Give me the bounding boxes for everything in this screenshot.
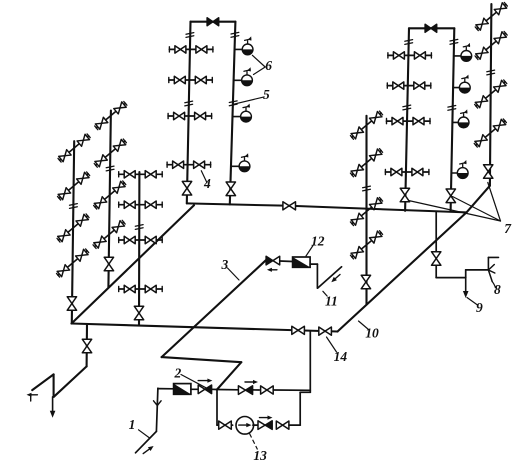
pointer to 11 — [323, 291, 327, 296]
valve riser 3 base — [134, 306, 143, 313]
branch with valves, center riser level 3 — [352, 199, 381, 223]
branch with valves, riser 5 level 4 — [476, 121, 505, 145]
valve riser 5 base — [484, 165, 493, 172]
wire right horizontal — [436, 277, 466, 279]
svg-text:9: 9 — [476, 300, 483, 315]
air collector 1 left — [242, 44, 253, 55]
break riser D top — [450, 39, 458, 41]
valve 14 on front main — [319, 327, 325, 335]
wire pump line right — [289, 424, 300, 426]
riser B left-pair right — [230, 22, 236, 205]
pointer to 8 — [492, 282, 495, 289]
drain side arrow — [32, 394, 38, 396]
valve riser B base — [226, 182, 235, 189]
air collector 3 left — [241, 111, 252, 122]
wire pump line left — [217, 424, 233, 426]
branch with valves, riser 1 level 1 — [60, 136, 89, 160]
riser 3 — [138, 172, 140, 326]
wire riser 5 to corner — [467, 186, 490, 213]
branch with valves, center riser level 2 — [352, 151, 381, 175]
water meter unit 12 — [293, 257, 311, 267]
valve before pump — [219, 421, 225, 429]
pump 13 — [236, 417, 254, 435]
wire unit 12 drop — [316, 264, 318, 288]
flow arrow over bypass — [245, 381, 253, 383]
valve riser A base — [182, 181, 191, 188]
riser 1 far left — [72, 141, 74, 322]
valve on drain drop — [82, 339, 91, 346]
flow arrow left — [272, 269, 277, 271]
branch with valves, riser 2 level 1 — [96, 103, 125, 127]
air collector 4 left — [239, 161, 250, 172]
break center riser — [363, 186, 371, 188]
branch with valves, riser C level 3 — [387, 120, 431, 122]
valve on back main — [283, 202, 289, 210]
wire makeup inlet diagonal 11 — [318, 267, 342, 288]
filter unit 2 — [174, 384, 191, 395]
wire inlet 1 vertical — [156, 388, 158, 431]
svg-text:4: 4 — [203, 176, 211, 191]
valve on right drop — [432, 252, 441, 259]
wire pump suction vertical — [216, 390, 218, 426]
check valve on bypass — [238, 386, 245, 395]
air collector 1 right — [461, 51, 472, 62]
wire drain diagonal — [54, 366, 87, 396]
wire inlet to filter — [158, 388, 174, 390]
wire drop right — [435, 212, 437, 278]
wire stub to air collector 2 right — [453, 87, 459, 89]
valve riser C base — [400, 188, 409, 195]
wire top pipe right pair — [409, 27, 454, 29]
svg-text:3: 3 — [221, 257, 229, 272]
tap 8 riser — [487, 257, 489, 270]
riser 4 center — [365, 116, 367, 304]
wire drop to drain — [86, 324, 89, 366]
branch with valves, riser 5 level 1 — [477, 4, 506, 28]
valve center riser base — [361, 275, 370, 282]
break riser C top — [405, 40, 413, 42]
pointer to 12 — [306, 246, 313, 257]
riser 2 — [108, 111, 111, 288]
wire stub to air collector 1 right — [454, 55, 461, 57]
break riser 5 — [487, 70, 495, 72]
tap 8 handle — [488, 265, 494, 271]
wire drain jog vertical — [53, 374, 55, 396]
air collector 4 right — [457, 168, 468, 179]
branch with valves, riser A level 4 — [167, 164, 211, 166]
wire front main — [72, 324, 338, 332]
wire back main — [187, 203, 290, 205]
air collector 3 right — [458, 117, 469, 128]
svg-text:12: 12 — [311, 233, 325, 248]
pointer to 1 — [139, 430, 150, 438]
tap 8 spout — [488, 256, 498, 258]
wire jog at pump outlet — [300, 391, 310, 393]
branch with valves, riser C level 1 — [388, 54, 432, 56]
pointer to 14 — [327, 337, 337, 352]
break riser 1 — [70, 204, 78, 206]
break riser B top — [231, 32, 239, 34]
branch with valves, riser A level 1 — [169, 48, 213, 50]
wire pump outlet vertical — [299, 392, 301, 425]
break riser D mid — [448, 106, 456, 108]
flow arrow inlet 1 — [143, 449, 149, 453]
break riser 2 — [106, 166, 114, 168]
pointer to 4 — [201, 171, 207, 183]
branch with valves, riser 2 level 3 — [95, 183, 124, 207]
branch with valves, riser 3 level 1 — [119, 173, 163, 175]
pointer to 7 — [488, 183, 501, 222]
pointer to 9 — [467, 298, 478, 306]
branch with valves, riser 5 level 3 — [476, 82, 505, 106]
svg-text:14: 14 — [334, 349, 348, 364]
wire valve to unit 12 — [280, 260, 293, 263]
valve on top pipe right pair — [425, 24, 431, 32]
flow arrow over pump check — [260, 417, 268, 419]
branch with valves, riser 1 level 2 — [59, 174, 88, 198]
break riser B mid — [229, 101, 237, 103]
drain arrow 9 — [465, 278, 467, 291]
branch with valves, riser A level 2 — [169, 79, 213, 81]
riser A left — [187, 22, 191, 204]
node junction P1 — [217, 389, 238, 391]
check valve after filter — [198, 385, 205, 394]
wire supply jog diagonal — [217, 362, 241, 389]
wire stub to air collector 3 right — [452, 121, 458, 123]
flow chevron on inlet — [154, 401, 158, 406]
flow arrow over check valve — [198, 380, 207, 382]
pointer to 5 — [233, 97, 264, 104]
riser D right-pair right — [451, 28, 455, 211]
branch with valves, riser C level 4 — [385, 171, 429, 173]
wire filter to check valve — [191, 388, 198, 390]
valve on top pipe left pair — [207, 18, 213, 26]
pointer to 13 dashed — [250, 434, 258, 450]
pointer to 6 — [252, 55, 265, 67]
wire return diagonal 10 — [338, 212, 467, 331]
wire stub to air collector 2 left — [234, 79, 242, 81]
branch with valves, riser 3 level 2 — [119, 204, 163, 206]
branch with valves, center riser level 1 — [352, 113, 381, 137]
svg-text:6: 6 — [265, 58, 272, 73]
wire drain jog diagonal — [32, 374, 53, 390]
pointer to 10 — [359, 321, 369, 330]
wire stub to air collector 1 left — [235, 48, 243, 50]
branch with valves, riser 5 level 2 — [477, 33, 506, 57]
wire check valve to junction — [212, 388, 217, 390]
wire pump to check valve — [253, 424, 258, 426]
break riser A top — [186, 33, 194, 35]
valve on front main left — [292, 326, 298, 334]
pointer to 3 — [228, 268, 240, 280]
wire stub to air collector 3 left — [233, 116, 241, 118]
break riser C mid — [403, 105, 411, 107]
wire left floor diagonal — [72, 205, 195, 323]
wire unit 12 outlet — [310, 263, 317, 265]
branch with valves, riser 1 level 3 — [59, 216, 88, 240]
wire bypass to riser — [273, 389, 310, 391]
break riser A mid — [185, 101, 193, 103]
branch with valves, riser 2 level 2 — [96, 141, 125, 165]
branch with valves, riser C level 2 — [387, 85, 431, 87]
break riser 3 — [135, 225, 143, 227]
check valve near unit 12 — [266, 256, 273, 265]
air collector 2 left — [242, 75, 253, 86]
wire stub to air collector 4 right — [451, 172, 457, 174]
wire inlet 1 diagonal — [136, 431, 157, 452]
wire riser to front main — [309, 332, 311, 393]
branch with valves, center riser level 4 — [352, 233, 381, 257]
branch with valves, riser 3 level 3 — [119, 239, 163, 241]
drain side tick — [30, 395, 32, 401]
wire bypass mid — [253, 389, 259, 391]
valve after pump — [276, 421, 282, 429]
wire step up — [465, 270, 467, 278]
svg-text:13: 13 — [253, 448, 267, 463]
svg-text:2: 2 — [174, 366, 182, 381]
branch with valves, riser 1 level 4 — [58, 251, 87, 275]
riser C right-pair left — [405, 28, 409, 211]
check valve after pump — [258, 421, 265, 430]
svg-text:10: 10 — [365, 326, 379, 341]
svg-text:8: 8 — [494, 282, 501, 297]
wire top pipe left pair — [191, 21, 236, 23]
svg-text:5: 5 — [263, 87, 270, 102]
wire supply jog horizontal — [162, 357, 242, 362]
wire stub to air collector 4 left — [231, 165, 239, 167]
pointer to 2 — [181, 375, 209, 390]
valve on bypass — [261, 386, 267, 394]
branch with valves, riser 2 level 4 — [95, 222, 124, 246]
drain down arrow — [52, 397, 54, 411]
valve riser 2 base — [104, 257, 113, 264]
svg-text:1: 1 — [129, 417, 136, 432]
branch with valves, riser A level 3 — [168, 115, 212, 117]
valve riser D base — [446, 189, 455, 196]
branch with valves, riser 3 level 4 — [119, 288, 163, 290]
riser 5 far right — [490, 4, 492, 186]
svg-text:11: 11 — [325, 294, 338, 309]
wire supply diagonal 3 — [162, 260, 266, 357]
flow arrow on line 11 — [335, 275, 340, 279]
air collector 2 right — [459, 82, 470, 93]
valve riser 1 base — [67, 297, 76, 304]
